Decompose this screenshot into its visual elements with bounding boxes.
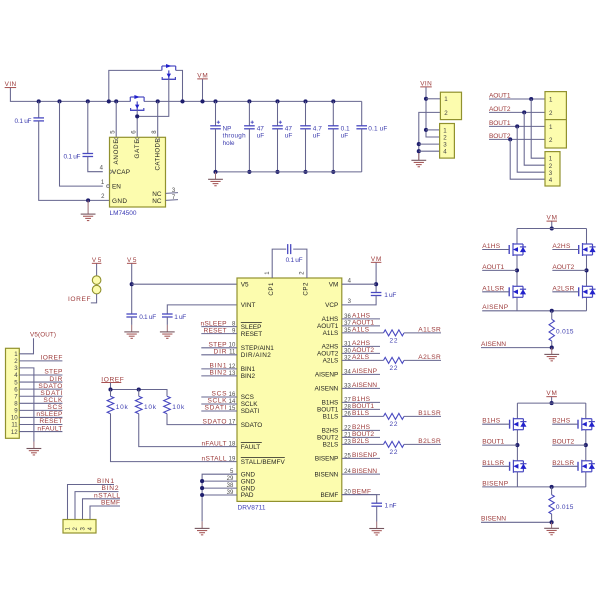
svg-text:1: 1 (549, 124, 553, 131)
svg-text:47: 47 (257, 125, 265, 132)
svg-text:BISENP: BISENP (482, 480, 509, 487)
wire cap 5 top lead (332, 101, 334, 125)
svg-text:V5: V5 (92, 257, 102, 264)
transistor A2HS high-side NFET (579, 243, 596, 256)
svg-text:22: 22 (390, 338, 398, 345)
junction V5 to DRV8711 (130, 282, 134, 286)
wire C9 to ground (131, 317, 133, 325)
wire J6 pin7 SDATI (19, 395, 62, 397)
svg-text:B2LSR: B2LSR (418, 438, 441, 445)
transistor A2LS low-side NFET (579, 285, 596, 298)
svg-text:4.7: 4.7 (313, 125, 322, 132)
svg-text:BOUT1: BOUT1 (352, 403, 374, 410)
value NP through hole of C3 (223, 125, 246, 147)
svg-text:B1HS: B1HS (352, 396, 371, 403)
svg-text:1 nF: 1 nF (385, 503, 397, 510)
svg-text:4: 4 (549, 177, 553, 184)
svg-text:47: 47 (285, 125, 293, 132)
wire gate A1LSR (482, 291, 509, 293)
wire IOREF label bar+stub (101, 382, 121, 384)
ground under C13 (369, 522, 384, 535)
wire B1LS to series resistor (342, 415, 384, 417)
wire stub AISENN (342, 387, 380, 389)
wire C1 bottom to GND pin row (39, 121, 88, 200)
ground under C9 (124, 325, 139, 338)
wire GND pin 2 (88, 199, 109, 201)
svg-text:VCAP: VCAP (112, 169, 130, 176)
wire VIN vertical A / pin2 (426, 87, 440, 137)
wire AISENN (481, 347, 552, 349)
svg-text:0.1 uF: 0.1 uF (64, 154, 81, 161)
resistor R3 10k pull-up (164, 396, 171, 414)
U1 pin entry marks (107, 137, 160, 187)
wire cap 3 bottom lead (277, 129, 279, 172)
svg-text:AOUT2: AOUT2 (317, 351, 339, 358)
transistor B2HS high-side NFET (578, 418, 595, 431)
wire VM rail corner down to C6 (361, 101, 363, 126)
wire CATHODE pin 8 to rail (157, 101, 159, 137)
svg-text:B1LSR: B1LSR (482, 460, 504, 467)
wire stub STEP (201, 347, 237, 349)
svg-text:BISENN: BISENN (481, 516, 506, 523)
wire to J2 pin1 (426, 129, 440, 131)
junction gate node (135, 114, 139, 118)
junction Q1A right (180, 99, 184, 103)
wire BOUT2 (552, 444, 586, 446)
wire cap 5 bottom lead (332, 129, 334, 172)
wire stub SCLK (201, 403, 237, 405)
svg-text:VM: VM (546, 390, 557, 397)
junction AISENN (550, 346, 554, 350)
wire V5 to jumper pad (96, 264, 98, 276)
svg-text:12: 12 (11, 429, 18, 436)
junction BOUT1 branch (515, 124, 519, 128)
J7 pin numbers 1-4 (66, 527, 95, 531)
wire B right leg middle (585, 430, 587, 461)
svg-text:B2HS: B2HS (352, 424, 371, 431)
U2 GND/PAD pin numbers (227, 469, 234, 496)
wire stub DIR (201, 354, 237, 356)
svg-text:BIN2: BIN2 (102, 485, 119, 492)
junction cap bank bottom 2 (247, 170, 251, 174)
svg-text:SCLK: SCLK (208, 398, 228, 405)
wire J6 pin3 to ground (19, 368, 34, 442)
svg-text:BISENN: BISENN (352, 468, 377, 475)
wire BOUT1 to motor connector (489, 125, 545, 127)
junction A sense node (550, 309, 554, 313)
wire stub AOUT2 (342, 352, 380, 354)
wire stub B2HS (342, 429, 380, 431)
wire stub BOUT2 (342, 436, 380, 438)
wire B right leg upper (585, 403, 587, 419)
J6 pin numbers 1-12 (11, 351, 18, 436)
resistor 22 ohm (B1LS) (384, 413, 405, 419)
wire Q1A gate to gate node (137, 79, 169, 116)
ground under capacitor bank (208, 172, 223, 186)
wire CP1 to C11 (272, 249, 286, 278)
ground J6 pin3 (27, 442, 42, 455)
wire C11 to CP2 (293, 249, 307, 278)
svg-text:AISENP: AISENP (482, 304, 509, 311)
junction Q1A left (107, 99, 111, 103)
J5 pin numbers (549, 156, 553, 184)
svg-text:AOUT1: AOUT1 (352, 320, 374, 327)
svg-text:uF: uF (313, 133, 321, 140)
svg-text:BIN2: BIN2 (210, 370, 227, 377)
svg-text:A2LSR: A2LSR (418, 354, 441, 361)
junction cap bank top 3 (275, 99, 279, 103)
wire VM flag to C12 (375, 263, 377, 293)
svg-text:1: 1 (443, 127, 447, 134)
wire A2LS to series resistor (342, 359, 384, 361)
wire A left leg upper (516, 229, 518, 245)
wire B left leg middle (516, 430, 518, 461)
supply flag VM (DRV8711) (371, 256, 382, 263)
junction VM bridge A (550, 226, 554, 230)
svg-text:FAULT: FAULT (241, 444, 261, 451)
svg-text:BEMF: BEMF (321, 492, 339, 499)
svg-text:10k: 10k (144, 404, 157, 411)
svg-text:A1HS: A1HS (352, 313, 371, 320)
svg-text:uF: uF (257, 133, 265, 140)
resistor R1 10k pull-up (107, 396, 114, 414)
J4 pin numbers (549, 124, 553, 144)
wire R3 to SDATO pin 17 (167, 414, 237, 425)
wire VM pin 4 (342, 283, 376, 285)
svg-text:1: 1 (549, 97, 553, 104)
svg-text:BOUT2: BOUT2 (489, 133, 511, 140)
wire R1 to nSTALL pin 19 (111, 414, 238, 462)
junction VIN A pin1 of J2 (424, 128, 428, 132)
svg-text:nFAULT: nFAULT (202, 440, 227, 447)
junction AOUT2 (584, 268, 588, 272)
connector J3 AOUT terminal block (545, 92, 566, 120)
svg-text:GND: GND (112, 198, 127, 205)
wire cap bank ground rail (216, 171, 362, 173)
svg-text:DIR/AIN2: DIR/AIN2 (241, 352, 271, 359)
wire stub SDATI (201, 410, 237, 412)
svg-text:A1LSR: A1LSR (418, 326, 441, 333)
capacitor bank C4 47 uF (244, 121, 255, 129)
svg-text:10: 10 (11, 415, 18, 422)
wire C2 bottom to VCAP pin (88, 157, 103, 172)
svg-text:A1LSR: A1LSR (482, 285, 504, 292)
wire cap 2 bottom lead (248, 129, 250, 172)
svg-text:A2LSR: A2LSR (552, 285, 574, 292)
svg-text:BOUT2: BOUT2 (317, 435, 339, 442)
wire VINT to C10 (167, 305, 237, 314)
wire bridge A top rail (517, 228, 587, 230)
svg-text:VM: VM (547, 215, 558, 222)
svg-text:0.1 uF: 0.1 uF (139, 314, 156, 321)
wire gate node to LM74500 GATE pin 6 (136, 110, 138, 137)
svg-text:VIN: VIN (420, 80, 432, 87)
svg-text:AISENN: AISENN (481, 341, 506, 348)
wire stub B1HS (342, 401, 380, 403)
wire A sense bottom lead (551, 341, 553, 348)
svg-text:AOUT1: AOUT1 (489, 92, 511, 99)
svg-text:SDATI: SDATI (40, 390, 62, 397)
wire J7 BIN1 (68, 485, 115, 520)
svg-text:V5(OUT): V5(OUT) (30, 331, 56, 338)
svg-text:EN: EN (112, 184, 121, 191)
wire BOUT2 to motor connector (489, 138, 545, 140)
wire stub AOUT1 (342, 325, 380, 327)
svg-text:22: 22 (390, 365, 398, 372)
resistor 22 ohm (B2LS) (384, 441, 405, 447)
svg-text:V5: V5 (127, 257, 137, 264)
wire stub BOUT1 (342, 408, 380, 410)
resistor 22 ohm (A2LS) (384, 357, 405, 363)
junction cap bank top 4 (303, 99, 307, 103)
junction B sense node (550, 485, 554, 489)
wire stub SCS (201, 396, 237, 398)
svg-text:AISENN: AISENN (315, 386, 339, 393)
svg-text:3: 3 (549, 170, 553, 177)
svg-text:22: 22 (390, 421, 398, 428)
svg-text:GND: GND (241, 478, 256, 485)
wire AOUT2 (552, 269, 586, 271)
svg-text:VINT: VINT (241, 302, 256, 309)
svg-text:BISENN: BISENN (315, 471, 339, 478)
svg-text:VCP: VCP (325, 302, 338, 309)
svg-text:3: 3 (443, 142, 447, 149)
connector J6 12-pin control header (6, 348, 20, 438)
wire V5 down to C9 (131, 264, 133, 314)
svg-text:DIR: DIR (49, 376, 62, 383)
ground under LM74500 (81, 200, 96, 220)
capacitor C12 1 uF (371, 293, 382, 296)
svg-text:STEP/AIN1: STEP/AIN1 (241, 345, 274, 352)
wire bridge A bottom rail (517, 310, 587, 312)
junction VM bridge B (550, 401, 554, 405)
wire 22 ohm to A2LSR (404, 359, 441, 361)
svg-text:BOUT2: BOUT2 (352, 431, 374, 438)
wire GND pin row 495 (202, 494, 237, 496)
svg-text:VM: VM (329, 281, 339, 288)
svg-text:AOUT2: AOUT2 (489, 106, 511, 113)
svg-text:nSLEEP: nSLEEP (36, 411, 63, 418)
supply flag V5 (jumper) (92, 257, 102, 264)
svg-text:DIR: DIR (214, 349, 227, 356)
wire ANODE pin 5 to rail (115, 101, 117, 137)
junction VIN A pin1 (424, 97, 428, 101)
wire 22 ohm to A1LSR (404, 332, 441, 334)
wire BISENP (482, 486, 517, 488)
wire A right leg upper (586, 229, 588, 245)
wire BOUT1 (482, 444, 517, 446)
wire A sense top lead (551, 311, 553, 320)
wire VM stub bridge B (551, 397, 553, 403)
svg-text:A2LS: A2LS (323, 358, 339, 365)
svg-text:AISENP: AISENP (315, 372, 338, 379)
U1 NC stubs and numbers 3 7 (166, 188, 179, 201)
ground bridge B (544, 522, 559, 534)
svg-text:IOREF: IOREF (40, 355, 62, 362)
wire cap 3 top lead (277, 101, 279, 125)
svg-text:AOUT2: AOUT2 (552, 264, 574, 271)
svg-text:0.1 uF: 0.1 uF (368, 125, 387, 132)
svg-text:LM74500: LM74500 (110, 210, 137, 217)
wire R1 top lead (110, 390, 112, 397)
wire C1 top lead (38, 101, 40, 118)
svg-text:A1LS: A1LS (352, 327, 370, 334)
svg-text:CP1: CP1 (268, 282, 275, 296)
wire GND vertical B from J1 pin2 (419, 112, 441, 160)
svg-text:B1LS: B1LS (352, 410, 370, 417)
wire J6 pin5 DIR (19, 381, 62, 383)
svg-text:17: 17 (229, 420, 236, 426)
junction ANODE pin branch (114, 99, 118, 103)
wire stub RESET (201, 333, 237, 335)
junction BOUT2 branch (508, 137, 512, 141)
supply flag V5 (127, 257, 137, 264)
overbar for FAULT (241, 441, 262, 443)
transistor A1LS low-side NFET (509, 285, 526, 298)
svg-text:BOUT2: BOUT2 (552, 439, 574, 446)
transistor B1HS high-side NFET (510, 418, 527, 431)
svg-text:0.1 uF: 0.1 uF (15, 118, 32, 125)
wire V5 to DRV8711 V5 pin (132, 283, 237, 285)
svg-text:0.015: 0.015 (556, 504, 574, 511)
wire A1LS to series resistor (342, 332, 384, 334)
wire R2 top lead (138, 390, 140, 397)
svg-text:A2LS: A2LS (352, 354, 370, 361)
svg-text:uF: uF (341, 133, 349, 140)
wire B sense top lead (551, 487, 553, 495)
capacitor C13 1 nF (371, 503, 382, 506)
supply flag VIN (connector) (420, 80, 432, 87)
wire Q1A drain branch (109, 70, 162, 101)
transistor Q1A upper reverse-protection PFET (162, 66, 176, 79)
wire gate A1HS (482, 249, 509, 251)
junction B J2 pin4 (417, 149, 421, 153)
capacitor C11 0.1 uF flying (288, 244, 291, 254)
capacitor C2 0.1 uF (VCAP) (83, 154, 94, 157)
wire gate A2HS (552, 249, 578, 251)
ground VIN connector (411, 153, 426, 167)
connector J5 output header (545, 152, 560, 186)
svg-text:through: through (223, 133, 246, 140)
wire stub AISENP (342, 373, 380, 375)
svg-text:B2LS: B2LS (323, 442, 339, 449)
supply flag VIN (5, 81, 17, 88)
svg-text:2: 2 (549, 137, 553, 144)
transistor B1LS low-side NFET (510, 460, 527, 473)
junction R top 2 (137, 387, 141, 391)
svg-text:RESET: RESET (39, 418, 62, 425)
junction cap bank top 5 (331, 99, 335, 103)
wire B2LS to series resistor (342, 443, 384, 445)
wire IOREF to resistor tops (111, 383, 168, 396)
svg-text:BOUT1: BOUT1 (482, 439, 504, 446)
capacitor bank C3 NP (210, 121, 221, 129)
wire gate B1LSR (482, 465, 509, 467)
J3 pin numbers (549, 97, 553, 117)
wire B right leg lower (585, 472, 587, 487)
U2 pin numbers 1 2 (top) (265, 271, 306, 275)
wire C8 bottom lead (361, 129, 363, 172)
connector J4 BOUT terminal block (545, 120, 566, 148)
wire stub BIN1 (201, 368, 237, 370)
svg-text:B1LS: B1LS (323, 414, 339, 421)
svg-text:hole: hole (223, 140, 235, 147)
svg-text:AOUT2: AOUT2 (352, 347, 374, 354)
svg-text:STEP: STEP (209, 342, 228, 349)
svg-text:BOUT1: BOUT1 (489, 120, 511, 127)
svg-text:STEP: STEP (44, 369, 63, 376)
svg-text:0.1 uF: 0.1 uF (286, 257, 303, 264)
junction AOUT2 branch (522, 110, 526, 114)
wire VIN rail left (10, 88, 130, 101)
capacitor C8 0.1 uF (end) (356, 126, 367, 129)
svg-text:0.1: 0.1 (341, 125, 350, 132)
svg-text:A2HS: A2HS (552, 243, 571, 250)
wire stub BISENP (342, 457, 380, 459)
wire J7 BIN2 (75, 492, 119, 520)
svg-text:1 uF: 1 uF (174, 314, 186, 321)
junction AOUT1 branch (529, 97, 533, 101)
svg-text:uF: uF (285, 133, 293, 140)
svg-text:2: 2 (549, 163, 553, 170)
svg-text:B1HS: B1HS (322, 400, 339, 407)
wire stub nSLEEP (201, 326, 237, 328)
svg-text:4: 4 (443, 149, 447, 156)
svg-text:B1HS: B1HS (482, 418, 501, 425)
svg-text:A2HS: A2HS (352, 340, 371, 347)
transistor A1HS high-side NFET (509, 243, 526, 256)
svg-text:BOUT1: BOUT1 (317, 407, 339, 414)
svg-text:nSTALL: nSTALL (202, 455, 227, 462)
resistor R2 10k pull-up (135, 396, 142, 414)
overbar for STALL/BEMFV (241, 456, 285, 458)
svg-text:VM: VM (197, 72, 208, 79)
wire gate B2LSR (552, 465, 578, 467)
svg-text:19: 19 (229, 457, 236, 463)
op-amp U1 LM74500 ideal-diode controller body (110, 137, 166, 207)
svg-text:V5: V5 (241, 281, 249, 288)
wire J6 pin6 SDATO (19, 388, 62, 390)
wire to J1 pin1 (426, 98, 440, 100)
capacitor C9 0.1 uF (126, 314, 137, 317)
junction GND bus 495 (200, 493, 204, 497)
ground under C10 (160, 325, 175, 338)
junction GND bus 481 (200, 479, 204, 483)
J2 pin numbers (443, 127, 447, 155)
svg-text:AISENP: AISENP (352, 368, 378, 375)
svg-text:18: 18 (229, 442, 236, 448)
svg-text:RESET: RESET (241, 331, 262, 338)
svg-text:1: 1 (549, 156, 553, 163)
wire B left leg lower (516, 472, 518, 487)
overbar for SLEEP (241, 321, 262, 323)
wire gate B2HS (552, 423, 578, 425)
svg-text:A1HS: A1HS (482, 243, 501, 250)
svg-text:BEMF: BEMF (101, 500, 120, 507)
wire VM stub bridge A (551, 222, 553, 229)
supply flag VM (bridge B) (546, 390, 557, 397)
junction VM pin 4 (374, 282, 378, 286)
svg-text:SCS: SCS (212, 391, 228, 398)
svg-text:22: 22 (390, 449, 398, 456)
wire J6 pin9 SCS (19, 409, 62, 411)
svg-text:BISENP: BISENP (352, 452, 378, 459)
svg-text:B2HS: B2HS (552, 418, 571, 425)
wire 22 ohm to B1LSR (404, 415, 441, 417)
supply flag VM (bridge A) (547, 215, 558, 222)
wire Q1A source branch (176, 70, 183, 101)
wire B left leg upper (516, 403, 518, 419)
